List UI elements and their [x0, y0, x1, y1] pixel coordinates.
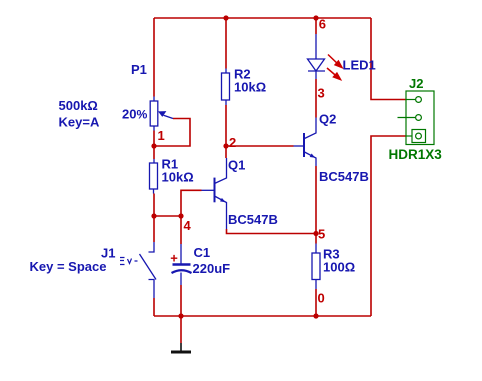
svg-text:LED1: LED1	[343, 58, 376, 73]
svg-text:5: 5	[318, 227, 325, 242]
svg-text:100Ω: 100Ω	[323, 260, 355, 275]
svg-text:J2: J2	[409, 76, 423, 91]
svg-text:C1: C1	[194, 245, 211, 260]
svg-text:+: +	[170, 251, 178, 266]
svg-text:220uF: 220uF	[193, 261, 231, 276]
svg-text:Key=A: Key=A	[59, 115, 100, 130]
svg-text:3: 3	[318, 86, 325, 101]
svg-text:6: 6	[319, 17, 326, 32]
svg-text:P1: P1	[131, 62, 147, 77]
svg-text:4: 4	[184, 218, 192, 233]
svg-text:0: 0	[318, 291, 325, 306]
svg-text:1: 1	[158, 128, 165, 143]
svg-text:HDR1X3: HDR1X3	[389, 147, 443, 162]
svg-text:Q1: Q1	[228, 158, 245, 173]
svg-text:500kΩ: 500kΩ	[59, 98, 98, 113]
svg-text:Q2: Q2	[319, 112, 336, 127]
svg-text:20%: 20%	[122, 107, 147, 122]
svg-text:BC547B: BC547B	[319, 169, 369, 184]
svg-text:Key = Space: Key = Space	[30, 259, 107, 274]
svg-text:10kΩ: 10kΩ	[234, 80, 266, 95]
svg-text:2: 2	[229, 135, 236, 150]
svg-text:BC547B: BC547B	[228, 212, 278, 227]
svg-text:10kΩ: 10kΩ	[162, 170, 194, 185]
